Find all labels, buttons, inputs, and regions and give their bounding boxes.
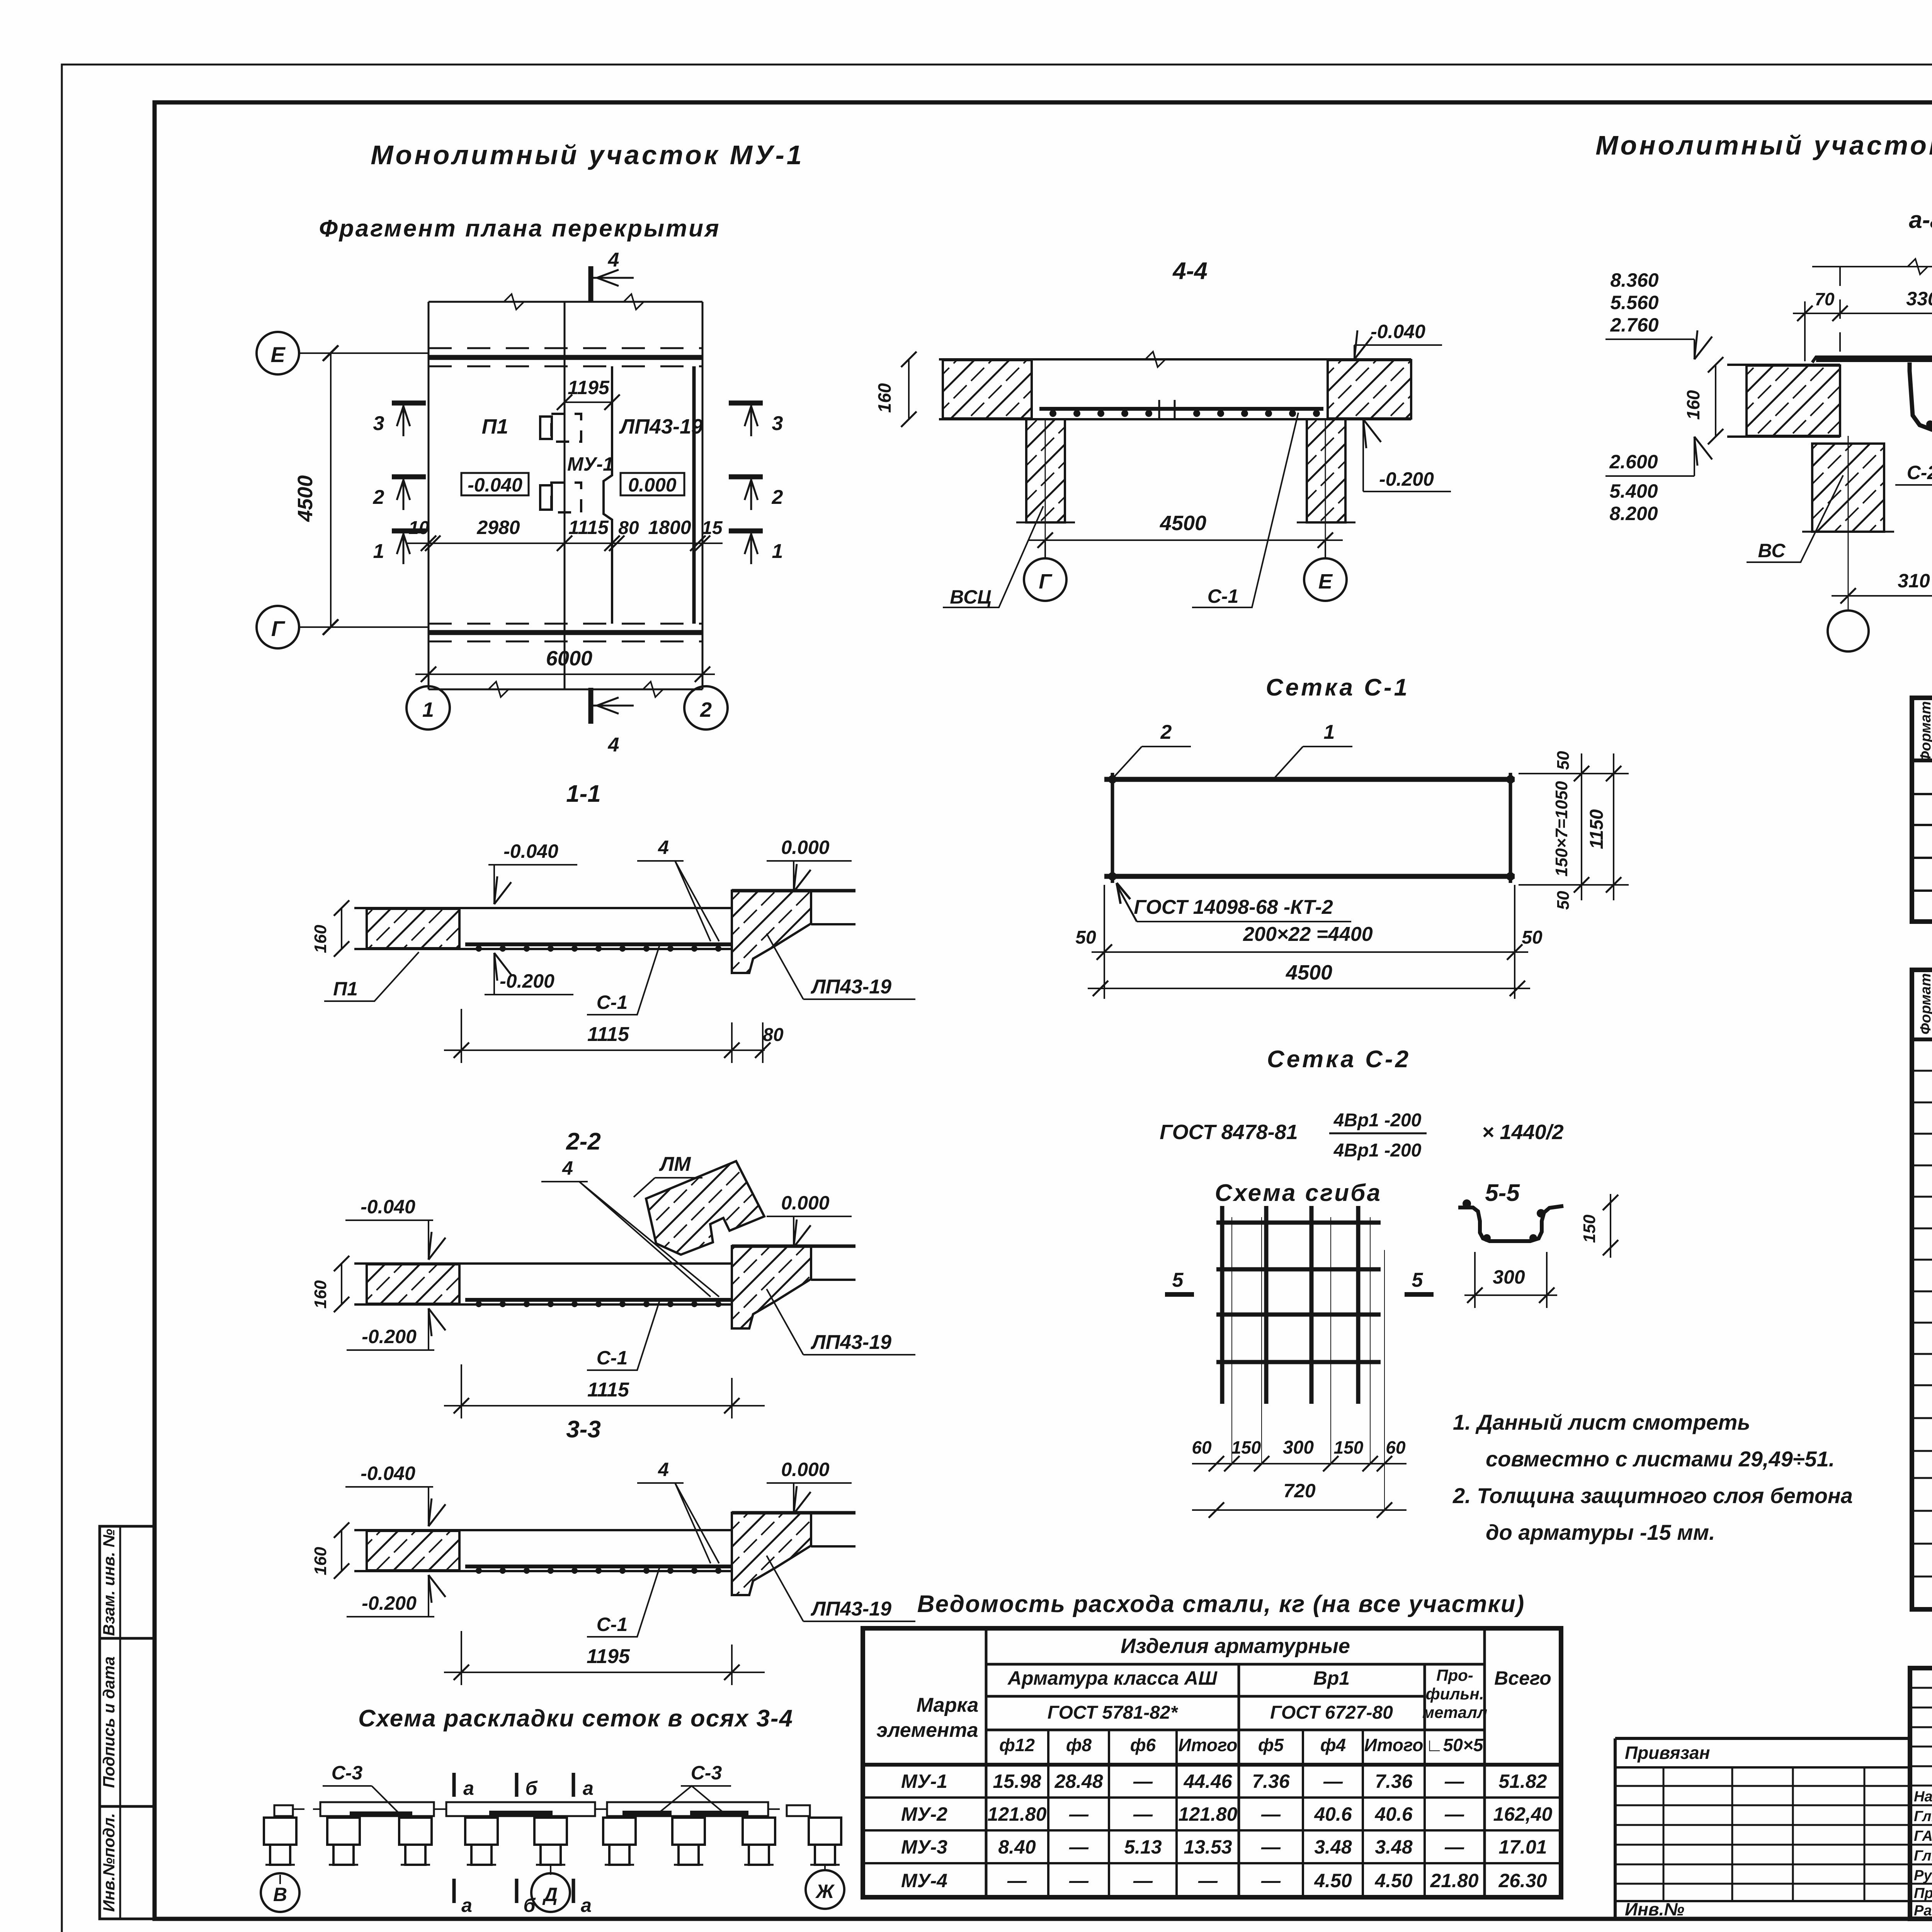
svg-text:Инв.№подл.: Инв.№подл. xyxy=(100,1813,118,1912)
раскладка section marks а б а top xyxy=(452,1773,456,1797)
svg-text:П1: П1 xyxy=(482,415,509,438)
svg-text:Г: Г xyxy=(271,616,286,641)
svg-text:Гл.спец.: Гл.спец. xyxy=(1914,1848,1932,1864)
svg-text:4.50: 4.50 xyxy=(1314,1870,1352,1891)
section mark 2 right xyxy=(729,474,763,480)
svg-text:Изделия арматурные: Изделия арматурные xyxy=(1121,1634,1350,1658)
svg-text:121.80: 121.80 xyxy=(988,1803,1047,1825)
svg-text:ВС: ВС xyxy=(1758,540,1786,561)
svg-text:-0.200: -0.200 xyxy=(362,1326,417,1347)
svg-text:совместно с листами 29,49÷5: совместно с листами 29,49÷51. xyxy=(1486,1447,1835,1471)
svg-text:до арматуры -15 мм.: до арматуры -15 мм. xyxy=(1486,1520,1715,1544)
svg-text:1. Данный лист смотреть: 1. Данный лист смотреть xyxy=(1453,1410,1750,1434)
а-а mesh С-2 channel (thick) xyxy=(1812,357,1932,362)
plan wall at axis Е xyxy=(429,347,702,349)
svg-text:51.82: 51.82 xyxy=(1498,1770,1547,1792)
svg-text:3.48: 3.48 xyxy=(1375,1836,1413,1858)
svg-text:Е: Е xyxy=(1318,570,1333,593)
4-4 axis circle Г xyxy=(1044,540,1046,558)
svg-text:Вр1: Вр1 xyxy=(1313,1667,1350,1689)
svg-text:—: — xyxy=(1261,1803,1281,1825)
svg-text:5.13: 5.13 xyxy=(1124,1836,1162,1858)
4-4 slab top line xyxy=(939,358,1411,361)
svg-text:5-5: 5-5 xyxy=(1485,1180,1520,1206)
svg-text:1800: 1800 xyxy=(648,517,691,538)
svg-text:С-2: С-2 xyxy=(1907,462,1932,483)
section mark 3 right xyxy=(729,401,763,406)
svg-text:121.80: 121.80 xyxy=(1179,1803,1238,1825)
svg-text:0.000: 0.000 xyxy=(781,1459,829,1480)
svg-text:160: 160 xyxy=(311,925,330,953)
svg-text:1195: 1195 xyxy=(587,1645,630,1668)
svg-text:Провер.: Провер. xyxy=(1914,1885,1932,1901)
раскладка axis circle Д xyxy=(550,1865,551,1875)
svg-text:4500: 4500 xyxy=(1286,961,1332,984)
svg-text:2: 2 xyxy=(772,486,783,509)
svg-text:а: а xyxy=(461,1895,472,1916)
svg-text:МУ-4: МУ-4 xyxy=(901,1870,947,1891)
svg-text:—: — xyxy=(1069,1870,1089,1891)
svg-text:40.6: 40.6 xyxy=(1374,1803,1413,1825)
svg-text:4Вр1 -200: 4Вр1 -200 xyxy=(1333,1110,1422,1131)
svg-text:Монолитный участок МУ-1: Монолитный участок МУ-1 xyxy=(371,140,804,170)
svg-text:ф4: ф4 xyxy=(1320,1735,1346,1755)
3-3 mesh С-1 xyxy=(465,1565,731,1568)
Схема сгиба mesh grid thin axis lines xyxy=(1231,1217,1232,1464)
axis circle 2 xyxy=(702,674,703,686)
svg-text:44.46: 44.46 xyxy=(1183,1770,1232,1792)
svg-text:МУ-1: МУ-1 xyxy=(901,1770,947,1792)
svg-text:В: В xyxy=(273,1884,287,1905)
svg-text:2: 2 xyxy=(373,486,384,509)
раскладка axis circle Ж xyxy=(824,1865,826,1871)
svg-text:—: — xyxy=(1007,1870,1027,1891)
svg-text:ГОСТ 14098-68 -КТ-2: ГОСТ 14098-68 -КТ-2 xyxy=(1134,896,1333,918)
plan slab outline xyxy=(428,302,430,689)
svg-text:160: 160 xyxy=(311,1280,330,1309)
svg-text:элемента: элемента xyxy=(876,1719,978,1742)
4-4 slab bottom line xyxy=(939,418,1411,420)
svg-text:300: 300 xyxy=(1283,1437,1314,1458)
svg-text:ЛП43-19: ЛП43-19 xyxy=(810,1331,891,1354)
раскладка axis circle В xyxy=(279,1875,281,1884)
svg-text:Разраб.: Разраб. xyxy=(1914,1903,1932,1919)
svg-text:8.360: 8.360 xyxy=(1610,269,1658,291)
svg-text:металл: металл xyxy=(1422,1703,1487,1721)
table Спецификация монолитных участков grid xyxy=(1912,970,1932,1609)
svg-text:50: 50 xyxy=(1554,751,1573,770)
svg-text:150: 150 xyxy=(1334,1437,1364,1458)
section mark 3 left xyxy=(392,401,426,406)
svg-text:Гл.конст.: Гл.конст. xyxy=(1914,1808,1932,1825)
svg-text:150: 150 xyxy=(1231,1437,1261,1458)
svg-text:50: 50 xyxy=(1554,891,1573,910)
svg-text:Ж: Ж xyxy=(815,1881,835,1902)
svg-text:∟50×5: ∟50×5 xyxy=(1426,1735,1484,1755)
4-4 right support wall hatched xyxy=(1328,360,1411,418)
svg-text:5.400: 5.400 xyxy=(1609,480,1658,502)
svg-text:б: б xyxy=(526,1777,538,1799)
svg-text:Подпись и дата: Подпись и дата xyxy=(100,1656,118,1788)
svg-text:С-3: С-3 xyxy=(691,1762,722,1784)
panel ЛП43-19 edge xyxy=(692,366,696,624)
svg-text:а: а xyxy=(581,1895,592,1916)
svg-text:С-1: С-1 xyxy=(597,1614,628,1635)
svg-text:Фрагмент плана перекрытия: Фрагмент плана перекрытия xyxy=(319,215,721,242)
table Спецификация арматурных изделий grid xyxy=(1912,698,1932,922)
svg-text:2980: 2980 xyxy=(476,517,520,538)
С-1 mesh left end wire xyxy=(1111,773,1114,883)
2-2 ЛМ stair flight hatched xyxy=(646,1161,764,1255)
svg-text:ВСЦ: ВСЦ xyxy=(950,586,991,608)
svg-text:5: 5 xyxy=(1172,1269,1184,1291)
svg-text:ЛП43-19: ЛП43-19 xyxy=(810,976,891,998)
svg-text:5.560: 5.560 xyxy=(1610,292,1658,313)
attached block Инв.№ row xyxy=(1615,1900,1910,1902)
svg-text:Итого: Итого xyxy=(1179,1735,1238,1755)
svg-text:50: 50 xyxy=(1075,927,1096,948)
svg-text:ф12: ф12 xyxy=(999,1735,1035,1755)
Схема сгиба mesh grid vertical wires xyxy=(1220,1206,1225,1404)
4-4 left support wall hatched xyxy=(943,360,1032,418)
svg-text:162,40: 162,40 xyxy=(1493,1803,1553,1825)
svg-text:—: — xyxy=(1444,1770,1464,1792)
3-3 ЛП43-19 element hatched xyxy=(732,1513,811,1595)
2-2 ЛП43-19 element hatched xyxy=(732,1246,811,1328)
svg-text:Итого: Итого xyxy=(1364,1735,1423,1755)
svg-text:—: — xyxy=(1133,1803,1153,1825)
svg-text:2: 2 xyxy=(1160,721,1172,743)
svg-text:-0.200: -0.200 xyxy=(1379,468,1434,490)
svg-text:13.53: 13.53 xyxy=(1184,1836,1232,1858)
svg-text:200×22 =4400: 200×22 =4400 xyxy=(1243,923,1373,946)
1-1 slab lines xyxy=(354,907,732,909)
svg-text:Монолитный участок МУ-2: Монолитный участок МУ-2 xyxy=(1595,130,1932,160)
svg-text:Всего: Всего xyxy=(1494,1667,1551,1689)
vertical dimension 4500 between axes xyxy=(330,353,332,627)
svg-text:3: 3 xyxy=(373,412,384,435)
а-а left hatch block xyxy=(1747,366,1840,436)
svg-text:15.98: 15.98 xyxy=(993,1770,1041,1792)
svg-text:2-2: 2-2 xyxy=(566,1128,601,1155)
svg-text:Формат: Формат xyxy=(1918,973,1932,1035)
svg-text:С-1: С-1 xyxy=(1207,585,1239,607)
svg-text:фильн.: фильн. xyxy=(1426,1685,1484,1703)
4-4 right column hatched xyxy=(1307,419,1345,522)
svg-text:28.48: 28.48 xyxy=(1054,1770,1103,1792)
svg-text:—: — xyxy=(1323,1770,1343,1792)
раскладка mesh bars on strip xyxy=(350,1811,412,1816)
svg-text:ф5: ф5 xyxy=(1258,1735,1284,1755)
svg-text:2.760: 2.760 xyxy=(1610,314,1658,336)
svg-text:70: 70 xyxy=(1815,289,1835,309)
svg-text:—: — xyxy=(1261,1836,1281,1858)
svg-text:1: 1 xyxy=(422,698,434,721)
svg-text:С-1: С-1 xyxy=(597,992,628,1013)
svg-text:4.50: 4.50 xyxy=(1374,1870,1413,1891)
раскладка section marks а б а bottom xyxy=(452,1879,456,1903)
section mark 4 bottom xyxy=(588,688,594,724)
а-а level leader upper xyxy=(1605,338,1694,340)
svg-text:3: 3 xyxy=(772,412,783,435)
svg-text:4: 4 xyxy=(608,734,619,756)
svg-text:40.6: 40.6 xyxy=(1314,1803,1352,1825)
2-2 left hatched panel П1 xyxy=(367,1264,459,1304)
attached block Привязан xyxy=(1615,1737,1910,1740)
5-5 channel section xyxy=(1458,1206,1563,1241)
svg-text:—: — xyxy=(1444,1836,1464,1858)
svg-text:3-3: 3-3 xyxy=(566,1416,601,1443)
svg-text:-0.040: -0.040 xyxy=(1371,321,1425,342)
4-4 axis circle Е xyxy=(1325,540,1326,558)
4-4 mesh С-1 with cross wires xyxy=(1039,407,1323,411)
svg-text:ГОСТ 6727-80: ГОСТ 6727-80 xyxy=(1270,1702,1393,1723)
section mark 1 left xyxy=(392,529,426,534)
svg-text:-0.040: -0.040 xyxy=(361,1463,415,1484)
svg-text:-0.040: -0.040 xyxy=(503,840,558,862)
С-1 mesh right end wire xyxy=(1509,773,1512,883)
svg-text:ф8: ф8 xyxy=(1066,1735,1092,1755)
svg-text:—: — xyxy=(1198,1870,1218,1891)
svg-text:0.000: 0.000 xyxy=(781,837,829,858)
svg-text:1: 1 xyxy=(1324,721,1335,743)
svg-text:МУ-3: МУ-3 xyxy=(901,1836,947,1858)
svg-text:-0.200: -0.200 xyxy=(362,1592,417,1614)
svg-text:8.40: 8.40 xyxy=(998,1836,1036,1858)
svg-text:17.01: 17.01 xyxy=(1498,1836,1547,1858)
level mark 0.000 boxed xyxy=(621,473,684,495)
svg-text:Нач.АПМ-1: Нач.АПМ-1 xyxy=(1914,1789,1932,1805)
axis circle 1 xyxy=(428,674,429,686)
svg-text:Инв.№: Инв.№ xyxy=(1625,1899,1684,1919)
opening dashed square upper xyxy=(551,414,581,442)
svg-text:4: 4 xyxy=(562,1157,573,1179)
section mark 4 top xyxy=(588,266,594,302)
svg-text:МУ-2: МУ-2 xyxy=(901,1803,947,1825)
svg-text:330: 330 xyxy=(1906,288,1932,310)
svg-text:× 1440/2: × 1440/2 xyxy=(1482,1121,1564,1144)
svg-text:7.36: 7.36 xyxy=(1252,1770,1290,1792)
1-1 mesh С-1 xyxy=(465,942,731,946)
svg-text:-0.200: -0.200 xyxy=(500,970,554,992)
svg-text:60: 60 xyxy=(1386,1437,1406,1458)
opening dashed square lower xyxy=(551,483,581,512)
svg-text:Марка: Марка xyxy=(917,1694,979,1716)
svg-text:С-3: С-3 xyxy=(332,1762,363,1784)
Схема сгиба mesh grid horizontal wires xyxy=(1216,1221,1381,1225)
svg-text:ф6: ф6 xyxy=(1130,1735,1156,1755)
ведомость header cells xyxy=(985,1628,988,1897)
plan panel joint line at section 4 xyxy=(564,302,566,689)
svg-text:0.000: 0.000 xyxy=(781,1192,829,1214)
svg-text:Ведомость расхода стали, кг (н: Ведомость расхода стали, кг (на все учас… xyxy=(917,1591,1525,1617)
svg-text:ГОСТ 8478-81: ГОСТ 8478-81 xyxy=(1160,1121,1298,1144)
svg-text:Взам. инв. №: Взам. инв. № xyxy=(100,1529,118,1636)
svg-text:4: 4 xyxy=(658,1459,669,1480)
svg-text:Арматура класса АШ: Арматура класса АШ xyxy=(1007,1667,1218,1689)
svg-text:—: — xyxy=(1133,1870,1153,1891)
svg-text:6000: 6000 xyxy=(546,647,592,670)
svg-text:1: 1 xyxy=(772,540,783,563)
а-а extension dashed line xyxy=(1839,267,1841,359)
plan wall at axis Г xyxy=(429,623,702,625)
С-1 right dims 50 150×7=1050 1150 xyxy=(1519,773,1629,774)
svg-text:720: 720 xyxy=(1283,1480,1316,1502)
svg-text:ГАП: ГАП xyxy=(1914,1828,1932,1844)
svg-text:—: — xyxy=(1444,1803,1464,1825)
svg-text:-0.040: -0.040 xyxy=(468,474,522,496)
axis Г circle xyxy=(257,606,299,648)
svg-text:Привязан: Привязан xyxy=(1625,1743,1710,1763)
2-2 slab lines xyxy=(354,1262,732,1265)
svg-text:1115: 1115 xyxy=(587,1379,629,1401)
svg-text:Д: Д xyxy=(542,1884,558,1905)
svg-text:Формат: Формат xyxy=(1918,701,1932,763)
а-а left column hatched xyxy=(1812,444,1884,532)
svg-text:МУ-1: МУ-1 xyxy=(567,453,614,475)
svg-text:150: 150 xyxy=(1580,1214,1599,1243)
svg-text:1195: 1195 xyxy=(568,377,610,398)
svg-text:ЛП43-19: ЛП43-19 xyxy=(619,415,703,438)
svg-text:7.36: 7.36 xyxy=(1375,1770,1413,1792)
svg-text:26.30: 26.30 xyxy=(1498,1870,1547,1891)
svg-text:1115: 1115 xyxy=(587,1023,629,1046)
svg-text:Сетка С-1: Сетка С-1 xyxy=(1266,674,1410,701)
plan МУ-1 monolithic strip boundary xyxy=(604,366,612,624)
svg-text:Е: Е xyxy=(270,342,286,367)
svg-text:300: 300 xyxy=(1493,1266,1525,1288)
svg-text:а-а: а-а xyxy=(1909,207,1932,233)
svg-text:ЛП43-19: ЛП43-19 xyxy=(810,1598,891,1620)
4-4 column centrelines xyxy=(1045,419,1046,558)
level mark -0.040 boxed xyxy=(461,473,529,495)
svg-text:80: 80 xyxy=(618,518,639,538)
svg-text:3.48: 3.48 xyxy=(1314,1836,1352,1858)
svg-text:Рук.гр.: Рук.гр. xyxy=(1914,1867,1932,1884)
svg-text:60: 60 xyxy=(1192,1437,1212,1458)
svg-text:4Вр1 -200: 4Вр1 -200 xyxy=(1333,1140,1422,1161)
svg-text:2.600: 2.600 xyxy=(1609,451,1658,473)
svg-text:160: 160 xyxy=(874,383,895,413)
svg-text:Г: Г xyxy=(1039,570,1053,593)
svg-text:50: 50 xyxy=(1522,927,1543,948)
table Ведомость расхода стали grid xyxy=(863,1628,1561,1897)
title block (штамп) outline xyxy=(1910,1668,1932,1919)
svg-text:10: 10 xyxy=(408,518,429,538)
3-3 left hatched panel П1 xyxy=(367,1531,459,1570)
1-1 left hatched panel П1 xyxy=(367,909,459,948)
svg-text:1150: 1150 xyxy=(1587,809,1607,849)
svg-text:—: — xyxy=(1069,1836,1089,1858)
раскладка beam pedestals xyxy=(264,1818,296,1845)
svg-text:а: а xyxy=(583,1777,594,1799)
svg-text:4500: 4500 xyxy=(1160,512,1206,535)
svg-text:Схема сгиба: Схема сгиба xyxy=(1215,1180,1382,1206)
svg-text:4-4: 4-4 xyxy=(1172,258,1207,284)
svg-text:—: — xyxy=(1133,1770,1153,1792)
embed plate marks xyxy=(540,417,552,439)
svg-text:310: 310 xyxy=(1898,570,1930,592)
1-1 ЛП43-19 element hatched xyxy=(732,891,811,973)
раскладка slab strip xyxy=(274,1805,293,1816)
3-3 slab lines xyxy=(354,1529,732,1531)
svg-text:Про-: Про- xyxy=(1436,1666,1473,1684)
svg-text:2. Толщина защитного слоя б: 2. Толщина защитного слоя бетона xyxy=(1452,1483,1853,1508)
svg-text:б: б xyxy=(524,1895,536,1916)
svg-text:Сетка С-2: Сетка С-2 xyxy=(1267,1046,1411,1073)
svg-text:—: — xyxy=(1069,1803,1089,1825)
svg-text:а: а xyxy=(463,1777,474,1799)
а-а axis circles xyxy=(1848,436,1849,611)
left margin label strip xyxy=(100,1526,155,1919)
svg-text:Схема раскладки сеток в осях: Схема раскладки сеток в осях 3-4 xyxy=(358,1705,793,1732)
svg-text:4: 4 xyxy=(608,249,619,271)
svg-text:ГОСТ 5781-82*: ГОСТ 5781-82* xyxy=(1048,1702,1179,1723)
svg-text:21.80: 21.80 xyxy=(1430,1870,1478,1891)
axis Е circle xyxy=(257,332,299,374)
svg-text:-0.040: -0.040 xyxy=(361,1196,415,1218)
С-1 mesh bottom bar xyxy=(1104,874,1515,879)
svg-text:4: 4 xyxy=(658,837,669,858)
svg-text:ЛМ: ЛМ xyxy=(658,1153,691,1175)
svg-text:1: 1 xyxy=(373,540,384,563)
svg-text:80: 80 xyxy=(763,1025,784,1045)
svg-text:0.000: 0.000 xyxy=(628,474,676,496)
svg-text:1115: 1115 xyxy=(568,517,609,538)
а-а slab left portion xyxy=(1727,364,1840,366)
svg-text:П1: П1 xyxy=(333,978,358,1000)
svg-text:4500: 4500 xyxy=(294,475,317,522)
svg-text:—: — xyxy=(1261,1870,1281,1891)
svg-text:160: 160 xyxy=(1683,390,1703,420)
section mark 2 left xyxy=(392,474,426,480)
2-2 mesh С-1 xyxy=(465,1298,731,1302)
svg-text:1-1: 1-1 xyxy=(566,781,601,807)
svg-text:2: 2 xyxy=(700,698,712,721)
svg-text:150×7=1050: 150×7=1050 xyxy=(1552,781,1571,877)
svg-text:С-1: С-1 xyxy=(597,1347,628,1369)
section mark 1 right xyxy=(729,529,763,534)
svg-text:5: 5 xyxy=(1412,1269,1423,1291)
svg-text:160: 160 xyxy=(311,1547,330,1575)
С-1 mesh top bar xyxy=(1104,777,1515,782)
4-4 left column ВСЦ hatched xyxy=(1026,419,1065,522)
svg-text:8.200: 8.200 xyxy=(1609,503,1658,524)
